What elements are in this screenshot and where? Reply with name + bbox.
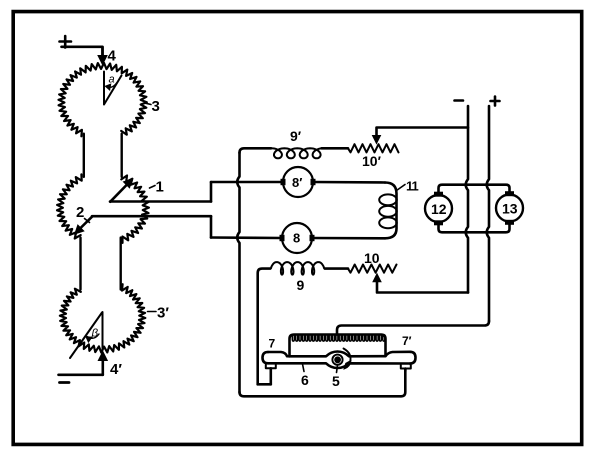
- label 5 leader: [337, 365, 338, 373]
- inductor 9: [271, 262, 326, 275]
- svg-text:7: 7: [269, 337, 276, 351]
- wire from + to terminal 4: [62, 47, 103, 55]
- terminal - (bottom left supply): [60, 381, 70, 384]
- label 3prime leader: [148, 311, 157, 313]
- minus bus vertical: [466, 106, 468, 293]
- bracket wire from wiper 1: [210, 182, 213, 202]
- wire down from 9 branch corner: [258, 269, 270, 385]
- meter 12: [425, 195, 452, 222]
- meter bottom lead: [439, 224, 510, 233]
- terminal 4prime arrow: [98, 352, 107, 361]
- svg-text:10′: 10′: [362, 153, 382, 169]
- meter top lead: [439, 185, 510, 193]
- resistance element 3prime (lower zigzag ring): [60, 284, 145, 352]
- svg-text:11: 11: [406, 179, 419, 194]
- meter 13: [496, 195, 523, 222]
- heater winding 6 box: [290, 335, 386, 357]
- wiper arrow on 10prime: [373, 136, 381, 144]
- bus wire (left vertical) with crossover hops: [240, 148, 272, 153]
- wire 9prime to 10prime: [322, 147, 349, 150]
- angle arc b: [87, 334, 99, 338]
- wire 8prime to coil 11: [313, 181, 385, 184]
- wiper arm 2 and wire: [92, 215, 211, 218]
- svg-text:a: a: [109, 74, 115, 86]
- svg-text:β: β: [91, 328, 99, 340]
- label plus (right bus): [491, 97, 500, 106]
- svg-text:3: 3: [152, 98, 160, 115]
- wiper arm of element 3 (angle a): [104, 72, 122, 105]
- svg-text:2: 2: [76, 204, 84, 221]
- rheostat 10prime: [348, 144, 399, 152]
- wire lamp 8 to bracket: [211, 236, 282, 239]
- svg-text:13: 13: [502, 201, 518, 217]
- bracket wire from wiper 2: [210, 216, 213, 237]
- rheostat 10: [348, 265, 397, 273]
- wire bracket to lamp 8prime: [211, 181, 283, 184]
- tube centre element 5: [332, 355, 342, 365]
- svg-text:8: 8: [293, 231, 300, 246]
- svg-text:4: 4: [108, 48, 117, 65]
- svg-text:4′: 4′: [110, 361, 122, 378]
- resistance element 3 (upper zigzag ring): [59, 63, 147, 136]
- svg-text:12: 12: [431, 201, 447, 217]
- terminal clip 7prime: [401, 365, 411, 369]
- label 11 leader: [397, 185, 406, 191]
- terminal + (top left supply): [60, 36, 72, 48]
- wiper arm 1 and wire: [110, 200, 211, 203]
- wire clip 7 to bus: [258, 383, 271, 386]
- tube body with end bulbs: [268, 352, 410, 357]
- plus bus vertical: [487, 106, 489, 321]
- terminal clip 7: [266, 365, 276, 369]
- svg-text:10: 10: [364, 250, 380, 266]
- wiper arm of element 3prime (angle b): [70, 312, 103, 358]
- rotation arrow at 5: [344, 349, 351, 363]
- resistance element 2-ring (middle zigzag ring): [57, 174, 82, 238]
- neck between middle ring and ring 3prime: [79, 238, 81, 290]
- svg-text:9: 9: [297, 277, 305, 293]
- label minus (right bus): [455, 99, 464, 102]
- label 1 leader: [150, 186, 156, 189]
- svg-text:3′: 3′: [157, 305, 169, 322]
- wire coil 11 to lamp 8: [312, 237, 385, 240]
- angle arc a: [107, 83, 118, 88]
- inductor 11: [385, 183, 397, 239]
- neck between ring 3 and middle ring: [83, 134, 85, 177]
- svg-text:1: 1: [156, 179, 164, 196]
- inductor 9prime: [272, 148, 324, 158]
- label 2 leader: [85, 219, 90, 223]
- svg-text:6: 6: [301, 372, 309, 388]
- bottom wire to lamp terminal 7prime: [401, 370, 405, 397]
- wire 9 to 10: [325, 267, 348, 270]
- label 3 leader: [146, 103, 152, 104]
- lamp 8: [282, 223, 312, 253]
- wiper arrow on 10: [373, 274, 381, 282]
- terminal 4 arrow: [98, 56, 107, 65]
- lamp 8prime: [283, 167, 313, 197]
- svg-text:9′: 9′: [290, 128, 302, 144]
- svg-text:7′: 7′: [402, 334, 412, 348]
- svg-text:5: 5: [332, 373, 340, 389]
- wire from terminal 4prime to minus: [59, 373, 103, 376]
- label 6 leader: [303, 364, 305, 372]
- heater winding teeth: [292, 335, 385, 341]
- svg-text:8′: 8′: [292, 175, 302, 190]
